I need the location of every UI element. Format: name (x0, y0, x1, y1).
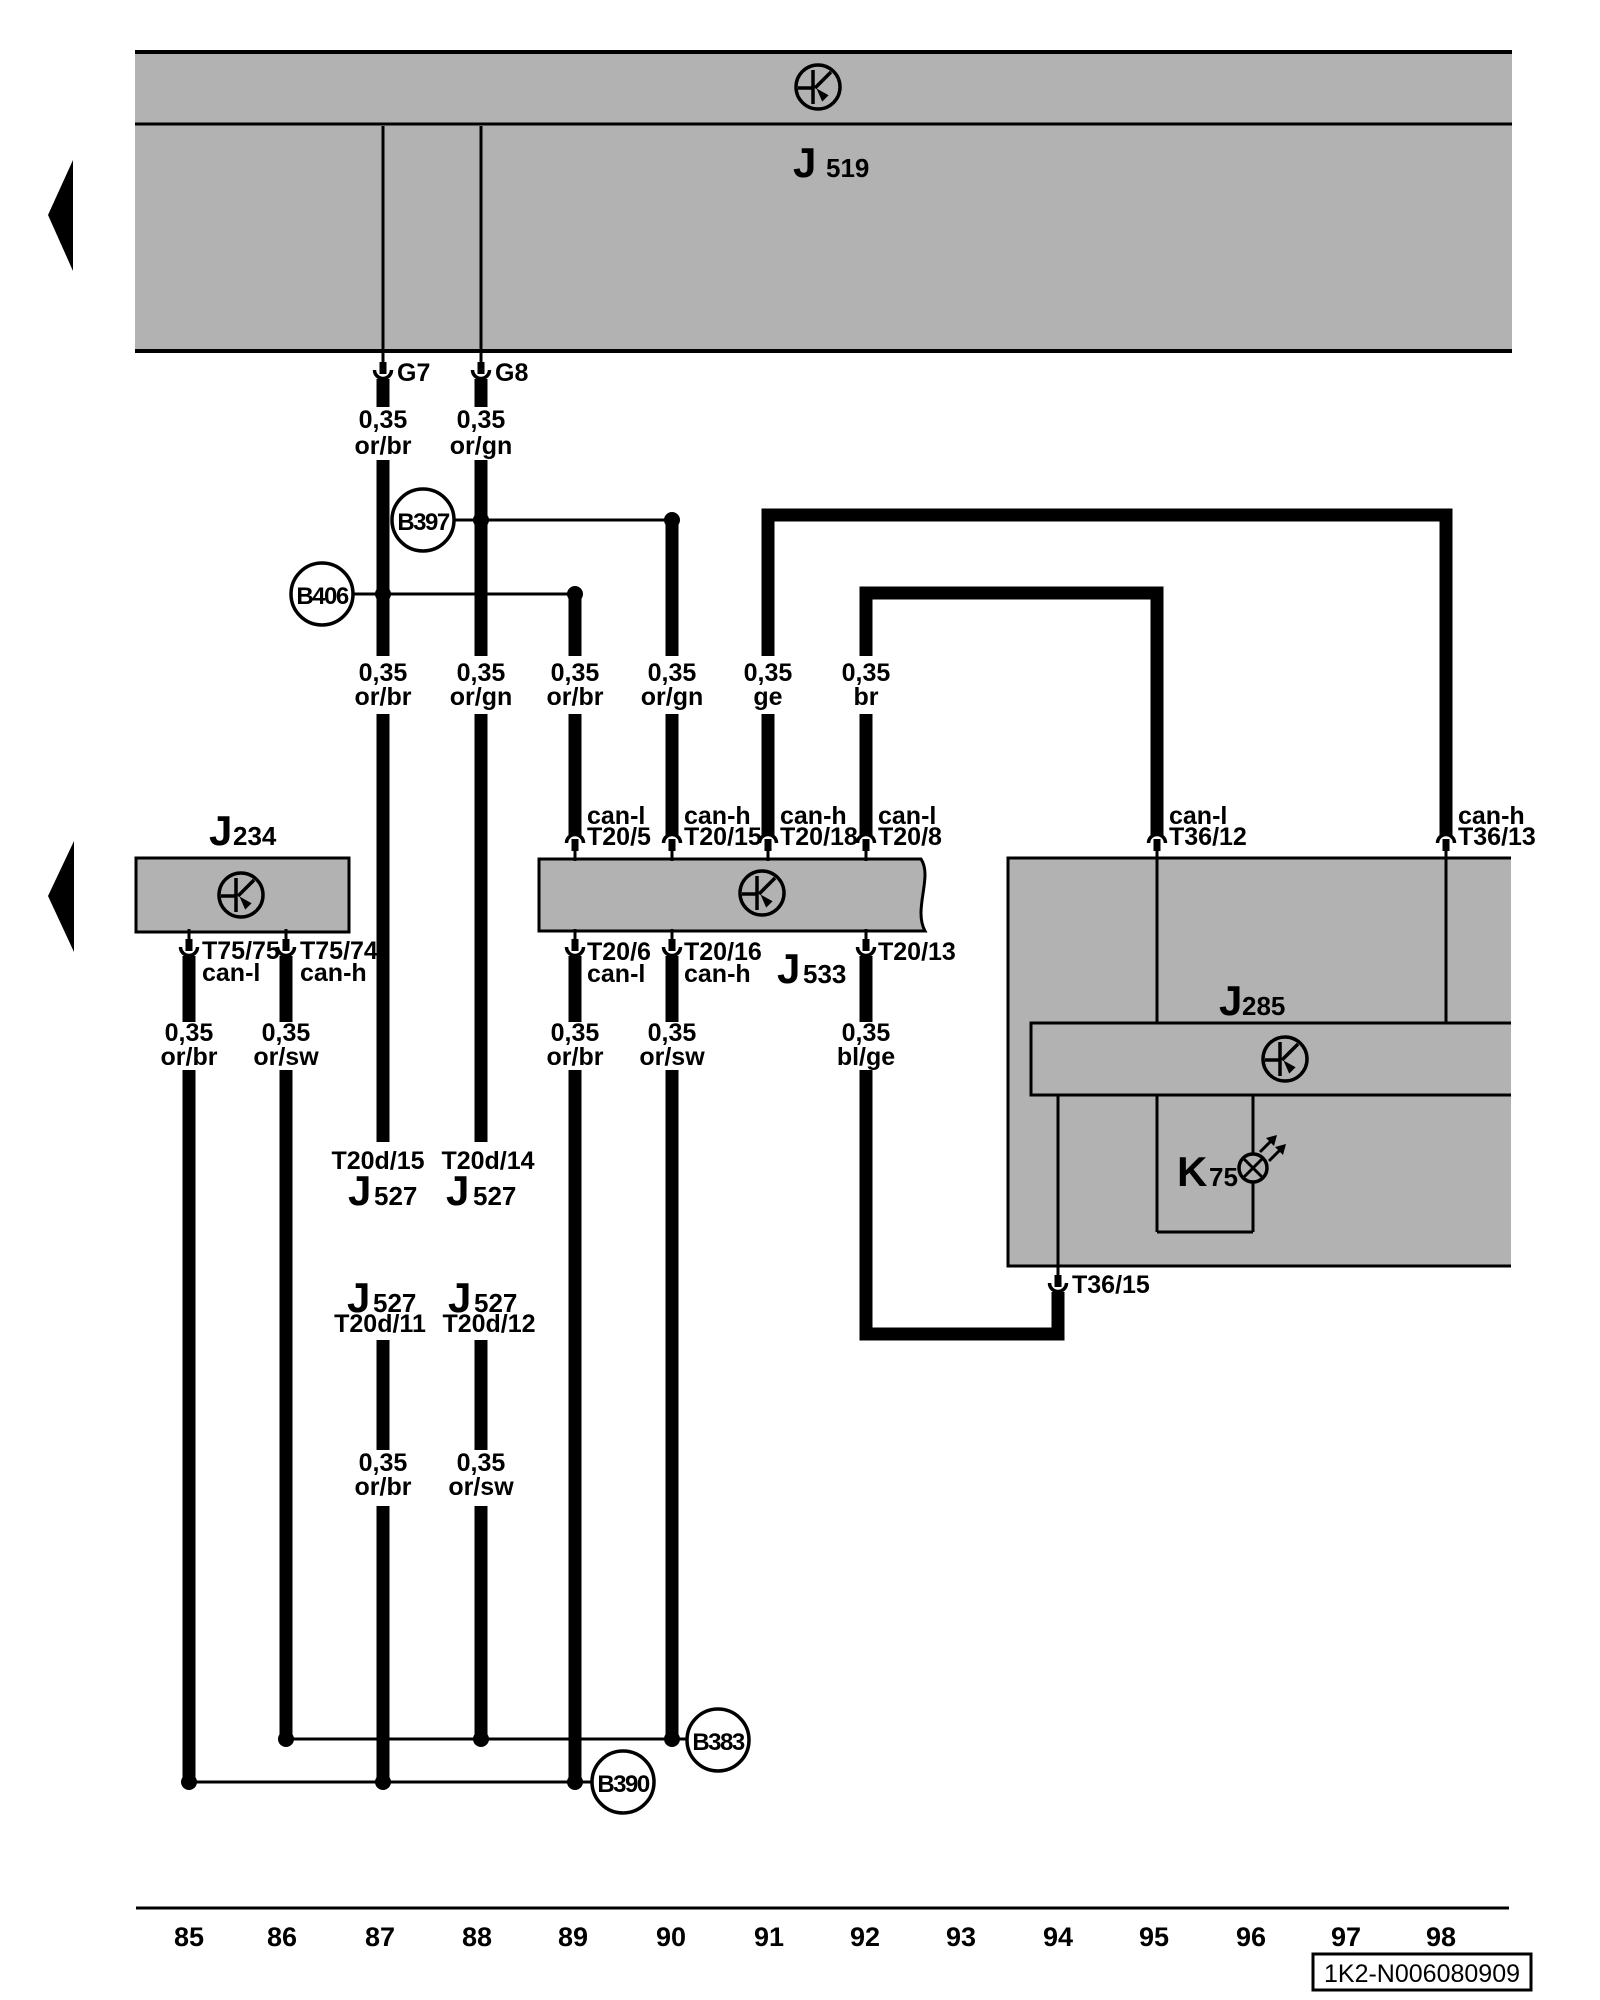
pin T20/5 (567, 835, 584, 862)
wire run to T36/15 (866, 1070, 1058, 1334)
splice symbol B390 (592, 1751, 654, 1813)
wire 90 segment b (666, 714, 679, 835)
wire 85 segment b (183, 1070, 196, 1782)
svg-text:0,35: 0,35 (457, 406, 506, 434)
splice symbol B406 (291, 563, 353, 625)
left continuation arrow (top) (48, 160, 73, 271)
wire 85 segment a (183, 956, 196, 1022)
svg-text:85: 85 (174, 1922, 204, 1952)
svg-text:75: 75 (1209, 1162, 1238, 1192)
wire 87 segment e (377, 1506, 390, 1782)
svg-text:K: K (1177, 1148, 1207, 1195)
wire 92 mid segment (860, 714, 873, 835)
svg-text:B397: B397 (397, 509, 450, 536)
svg-text:T20d/12: T20d/12 (442, 1310, 535, 1338)
pin G7 socket (375, 352, 392, 379)
svg-text:97: 97 (1331, 1922, 1361, 1952)
svg-text:G7: G7 (397, 359, 430, 387)
wire 92 top run (866, 593, 1157, 835)
splice line B397 (450, 519, 672, 522)
svg-text:T20/18: T20/18 (780, 823, 858, 851)
wire 88 segment e (475, 1506, 488, 1739)
svg-text:86: 86 (267, 1922, 297, 1952)
junction dot wire90/B397 (664, 512, 680, 528)
svg-text:519: 519 (826, 153, 869, 183)
svg-text:or/br: or/br (547, 1043, 604, 1071)
svg-text:or/br: or/br (547, 683, 604, 711)
svg-text:88: 88 (462, 1922, 492, 1952)
pin T20/8 (858, 835, 875, 862)
junction dot wire87/B390 (375, 1774, 391, 1790)
svg-text:can-l: can-l (587, 960, 645, 988)
svg-text:can-h: can-h (684, 960, 751, 988)
svg-text:527: 527 (374, 1181, 417, 1211)
junction dot wire88/B383 (473, 1731, 489, 1747)
wire 88 segment c (475, 714, 488, 1142)
svg-text:T36/15: T36/15 (1072, 1271, 1150, 1299)
svg-text:or/gn: or/gn (450, 683, 513, 711)
svg-text:T20/8: T20/8 (878, 823, 942, 851)
diagram number box (1313, 1954, 1531, 1990)
svg-text:T36/12: T36/12 (1169, 823, 1247, 851)
internal lead G8 (480, 126, 483, 351)
svg-text:527: 527 (473, 1181, 516, 1211)
pin G8 socket (473, 352, 490, 379)
pin T36/12 (1149, 835, 1166, 862)
wire 86 segment b (280, 1070, 293, 1739)
svg-text:or/br: or/br (355, 683, 412, 711)
svg-text:91: 91 (754, 1922, 784, 1952)
svg-text:1K2-N006080909: 1K2-N006080909 (1324, 1960, 1520, 1988)
svg-text:J: J (777, 945, 800, 992)
pin T20/16 (664, 929, 681, 956)
svg-text:G8: G8 (495, 359, 528, 387)
pin T20/13 (858, 929, 875, 956)
pin T75/74 (278, 929, 295, 956)
svg-text:T20/15: T20/15 (684, 823, 762, 851)
wire 87 segment d (377, 1340, 390, 1450)
wire 91 top run (768, 515, 1446, 835)
wire 92 lower segment (bl/ge) (860, 956, 873, 1022)
svg-text:J: J (209, 807, 232, 854)
svg-text:T36/13: T36/13 (1458, 823, 1536, 851)
left continuation arrow (middle) (48, 841, 74, 952)
svg-text:98: 98 (1426, 1922, 1456, 1952)
wire 89 segment d (569, 1070, 582, 1782)
svg-text:234: 234 (233, 821, 277, 851)
internal lead T36/12 (1156, 858, 1159, 1023)
svg-text:89: 89 (558, 1922, 588, 1952)
control unit J234 box (136, 858, 349, 932)
track baseline (136, 1907, 1509, 1910)
continuation symbol in J234 (219, 873, 263, 917)
junction dot wire88/B397 (473, 512, 489, 528)
svg-text:87: 87 (365, 1922, 395, 1952)
internal lamp circuit leads (1156, 1095, 1159, 1232)
wire 90 segment d (666, 1070, 679, 1739)
wire 91 lower segment (762, 714, 775, 835)
svg-text:or/sw: or/sw (448, 1473, 514, 1501)
svg-text:B406: B406 (296, 583, 349, 610)
junction dot wire89/B390 (567, 1774, 583, 1790)
svg-text:96: 96 (1236, 1922, 1266, 1952)
wire 88 segment a (475, 379, 488, 407)
splice symbol B383 (687, 1709, 749, 1771)
svg-text:bl/ge: bl/ge (837, 1043, 895, 1071)
svg-text:J: J (1219, 977, 1242, 1024)
svg-text:or/br: or/br (355, 432, 412, 460)
wire 89 segment c (569, 956, 582, 1022)
svg-text:or/br: or/br (161, 1043, 218, 1071)
svg-text:B390: B390 (597, 1771, 650, 1798)
svg-text:ge: ge (753, 683, 782, 711)
svg-text:93: 93 (946, 1922, 976, 1952)
control unit J533 box (539, 859, 925, 931)
splice line B390 (189, 1781, 592, 1784)
svg-text:T20d/11: T20d/11 (334, 1310, 426, 1338)
svg-text:T20/13: T20/13 (878, 938, 956, 966)
svg-text:92: 92 (850, 1922, 880, 1952)
junction dot wire85/B390 (181, 1774, 197, 1790)
pin T75/75 (181, 929, 198, 956)
splice symbol B397 (392, 489, 454, 551)
junction dot wire86/B383 (278, 1731, 294, 1747)
svg-text:or/sw: or/sw (253, 1043, 319, 1071)
svg-text:90: 90 (656, 1922, 686, 1952)
svg-text:can-h: can-h (300, 959, 367, 987)
pin T20/18 (760, 835, 777, 862)
svg-text:T20/5: T20/5 (587, 823, 651, 851)
svg-text:J: J (348, 1167, 371, 1214)
svg-text:533: 533 (803, 959, 846, 989)
wire 88 segment b (475, 460, 488, 656)
lamp K75 (1239, 1154, 1267, 1182)
continuation symbol in J519 (796, 65, 840, 109)
control unit J519 box (135, 50, 1512, 353)
wire 89 segment a (569, 591, 582, 656)
svg-text:94: 94 (1043, 1922, 1073, 1952)
svg-text:or/gn: or/gn (641, 683, 704, 711)
continuation symbol in J533 (740, 871, 784, 915)
svg-text:or/gn: or/gn (450, 432, 513, 460)
wire 89 segment b (569, 714, 582, 835)
wire 90 segment c (666, 956, 679, 1022)
svg-text:B383: B383 (692, 1729, 745, 1756)
wire 88 segment d (475, 1340, 488, 1450)
svg-text:T20d/15: T20d/15 (331, 1147, 424, 1175)
pin T36/15 (1050, 1265, 1067, 1292)
continuation symbol in J285 (1263, 1037, 1307, 1081)
junction dot wire90/B383 (664, 1731, 680, 1747)
pin T36/13 (1438, 835, 1455, 862)
wire 86 segment a (280, 956, 293, 1022)
pin T20/15 (664, 835, 681, 862)
inner unit band (1031, 1022, 1511, 1025)
wire 90 segment a (666, 520, 679, 656)
svg-text:95: 95 (1139, 1922, 1169, 1952)
internal lead T36/13 (1445, 858, 1448, 1023)
internal lead G7 (382, 126, 385, 351)
control unit J285 box (1008, 858, 1511, 1266)
svg-text:285: 285 (1242, 991, 1285, 1021)
svg-text:or/br: or/br (355, 1473, 412, 1501)
wire 87 segment b (377, 460, 390, 656)
svg-text:J: J (446, 1167, 469, 1214)
svg-text:br: br (854, 683, 879, 711)
wire 87 segment c (377, 714, 390, 1142)
splice line B406 (350, 593, 575, 596)
splice line B383 (285, 1738, 687, 1741)
wire 87 segment a (377, 379, 390, 407)
svg-text:can-l: can-l (202, 959, 260, 987)
internal lead to T36/15 (1057, 1095, 1060, 1266)
junction dot wire89/B406 (567, 586, 583, 602)
svg-text:0,35: 0,35 (359, 406, 408, 434)
svg-text:J: J (793, 139, 816, 186)
svg-text:or/sw: or/sw (639, 1043, 705, 1071)
pin T20/6 (567, 929, 584, 956)
junction dot wire87/B406 (375, 586, 391, 602)
